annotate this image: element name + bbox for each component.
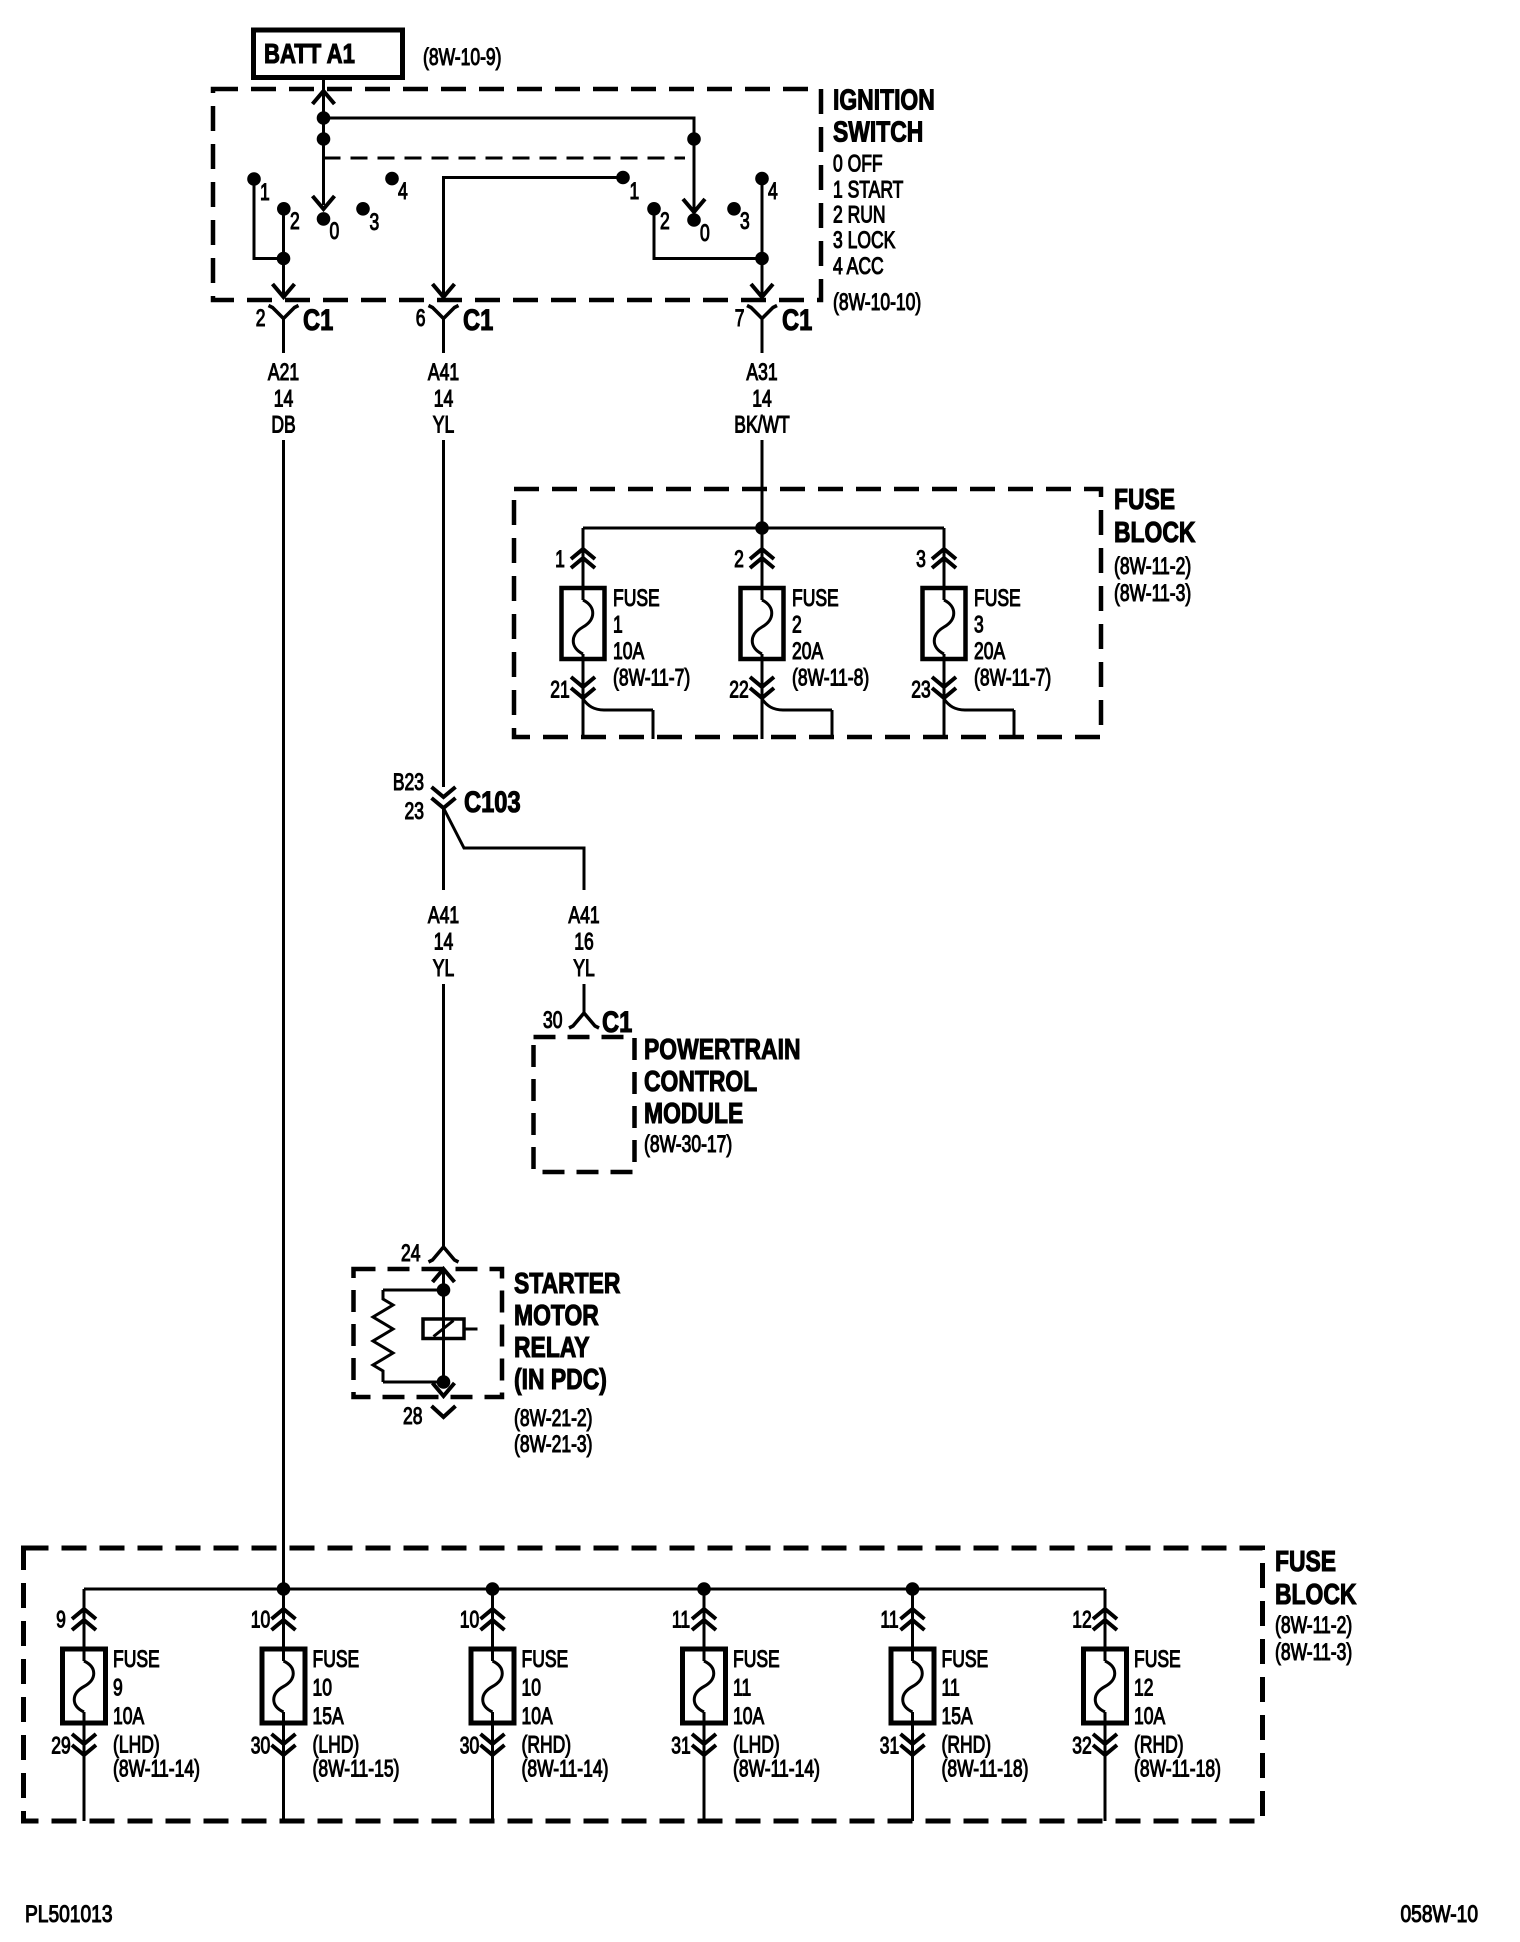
svg-text:21: 21 <box>550 677 569 703</box>
svg-text:(8W-21-3): (8W-21-3) <box>514 1431 592 1457</box>
arrow ignition output pin 2 <box>273 284 295 297</box>
svg-text:4: 4 <box>398 178 408 204</box>
svg-text:1: 1 <box>260 179 270 205</box>
pin 12 chevrons lower (RHD) <box>1093 1609 1117 1619</box>
wire A41 16 YL to PCM <box>583 984 586 1013</box>
svg-text:2: 2 <box>290 208 300 234</box>
connector pin 30 C1 of PCM <box>569 1013 599 1028</box>
svg-text:FUSE: FUSE <box>1114 482 1175 515</box>
contact 3 right <box>727 202 741 216</box>
svg-text:(8W-11-18): (8W-11-18) <box>1134 1756 1221 1782</box>
svg-text:YL: YL <box>433 412 454 438</box>
svg-text:14: 14 <box>434 929 454 955</box>
svg-text:(LHD): (LHD) <box>113 1732 160 1758</box>
contact 1 middle <box>616 171 630 185</box>
svg-text:7: 7 <box>735 305 745 331</box>
wire resistor bottom to junction <box>383 1381 444 1384</box>
svg-text:FUSE: FUSE <box>974 585 1021 611</box>
svg-text:31: 31 <box>671 1733 690 1759</box>
svg-text:28: 28 <box>403 1403 422 1429</box>
svg-text:0: 0 <box>700 220 710 246</box>
fuse 1 branch wire from bus <box>582 528 585 588</box>
wire battery feed to right wafer <box>324 118 695 139</box>
svg-text:IGNITION: IGNITION <box>833 83 935 116</box>
junction node on battery feed 2 <box>317 132 331 146</box>
arrow ignition output pin 7 <box>751 284 773 297</box>
junction node bus fuse 11 (RHD) <box>906 1582 920 1596</box>
svg-text:FUSE: FUSE <box>1134 1646 1181 1672</box>
svg-text:FUSE: FUSE <box>942 1646 989 1672</box>
svg-text:30: 30 <box>543 1007 562 1033</box>
wire to ignition output 7 <box>761 259 764 298</box>
junction node right wafer feed <box>687 132 701 146</box>
svg-text:4 ACC: 4 ACC <box>833 253 884 279</box>
wire right feed down to contact 0 right <box>693 139 696 209</box>
connector pin 28 of relay <box>432 1406 456 1417</box>
svg-text:3: 3 <box>974 612 984 638</box>
wire contact 2 right to output junction <box>654 209 762 259</box>
powertrain control module dashed box <box>534 1037 635 1172</box>
wire contact 2 to ignition output 2 <box>282 209 285 297</box>
svg-text:1: 1 <box>613 612 623 638</box>
fuse block dashed box lower <box>24 1548 1263 1821</box>
fuse F9 (LHD) body <box>63 1649 106 1723</box>
fuse 11 (LHD) branch wire <box>703 1589 706 1649</box>
wire contact 4 right down <box>761 179 764 259</box>
fuse F12 (RHD) body <box>1084 1649 1127 1723</box>
svg-text:YL: YL <box>433 955 454 981</box>
relay internal wire <box>442 1269 445 1382</box>
svg-text:23: 23 <box>405 798 424 824</box>
svg-text:1: 1 <box>555 546 565 572</box>
svg-text:(8W-11-3): (8W-11-3) <box>1275 1639 1352 1665</box>
svg-text:A21: A21 <box>268 359 299 385</box>
junction node bus fuse 10 (LHD) <box>277 1582 291 1596</box>
svg-text:3: 3 <box>370 209 380 235</box>
svg-text:(8W-10-10): (8W-10-10) <box>833 289 921 315</box>
svg-text:FUSE: FUSE <box>113 1646 160 1672</box>
svg-text:BLOCK: BLOCK <box>1114 515 1196 548</box>
svg-text:BLOCK: BLOCK <box>1275 1577 1357 1610</box>
fuse 10 (LHD) branch wire <box>282 1589 285 1649</box>
battery feed box BATT A1 <box>254 30 403 78</box>
connector pin 7 C1 <box>747 306 777 319</box>
svg-text:(LHD): (LHD) <box>313 1732 360 1758</box>
svg-text:C1: C1 <box>782 303 812 336</box>
pin 30 chevrons lower (RHD) <box>491 1723 494 1821</box>
svg-text:10A: 10A <box>613 638 644 664</box>
svg-text:MODULE: MODULE <box>644 1096 743 1129</box>
contact 0 right <box>687 213 701 227</box>
svg-text:6: 6 <box>416 305 426 331</box>
ignition switch dashed box <box>213 89 821 300</box>
pin 9 chevrons lower (LHD) <box>72 1609 96 1619</box>
fuse 3 output branch curve <box>944 699 1014 710</box>
pin 10 chevrons lower (RHD) <box>481 1609 505 1619</box>
svg-text:FUSE: FUSE <box>792 585 839 611</box>
pin 31 chevrons lower (LHD) <box>703 1723 706 1821</box>
connector pin 6 C1 <box>429 306 459 319</box>
svg-text:RELAY: RELAY <box>514 1330 590 1363</box>
wire A41 YL to starter motor relay <box>442 984 445 1247</box>
svg-text:32: 32 <box>1072 1733 1091 1759</box>
svg-text:14: 14 <box>434 386 454 412</box>
svg-text:C103: C103 <box>464 785 521 818</box>
relay coil <box>423 1319 464 1339</box>
svg-text:(8W-11-14): (8W-11-14) <box>733 1756 820 1782</box>
svg-text:20A: 20A <box>974 638 1005 664</box>
wire A21 DB from ignition to bottom fuse block <box>282 440 285 1589</box>
svg-text:(8W-11-2): (8W-11-2) <box>1275 1612 1352 1638</box>
fuse F10 (LHD) body <box>262 1649 305 1723</box>
svg-text:(8W-11-2): (8W-11-2) <box>1114 553 1191 579</box>
svg-text:10A: 10A <box>113 1703 144 1729</box>
pin 31 chevrons lower (RHD) <box>911 1723 914 1821</box>
svg-text:0: 0 <box>330 218 340 244</box>
fuse F11 (LHD) body <box>683 1649 726 1723</box>
svg-text:FUSE: FUSE <box>1275 1544 1336 1577</box>
svg-text:1: 1 <box>630 178 640 204</box>
svg-text:FUSE: FUSE <box>522 1646 569 1672</box>
svg-text:C1: C1 <box>463 303 493 336</box>
arrow ignition output pin 6 <box>433 284 455 297</box>
svg-text:2 RUN: 2 RUN <box>833 202 886 228</box>
fuse F11 (RHD) body <box>891 1649 934 1723</box>
svg-text:BATT A1: BATT A1 <box>264 39 355 70</box>
pin 32 chevrons lower (RHD) <box>1104 1723 1107 1821</box>
svg-text:STARTER: STARTER <box>514 1266 621 1299</box>
svg-text:(8W-30-17): (8W-30-17) <box>644 1131 732 1157</box>
svg-text:20A: 20A <box>792 638 823 664</box>
contact 1 left <box>247 172 261 186</box>
fuse F3 body <box>923 588 966 659</box>
svg-text:A41: A41 <box>428 902 459 928</box>
svg-text:C1: C1 <box>602 1005 632 1038</box>
svg-text:10: 10 <box>313 1675 332 1701</box>
wire contact 1 middle to ignition output 6 <box>444 178 624 298</box>
fuse F10 (RHD) body <box>471 1649 514 1723</box>
fuse 11 (RHD) branch wire <box>911 1589 914 1649</box>
svg-text:30: 30 <box>251 1733 270 1759</box>
fuse 1 output branch curve <box>583 699 653 710</box>
fuse block dashed box upper <box>514 489 1101 737</box>
svg-text:12: 12 <box>1134 1675 1153 1701</box>
contact 2 left <box>277 202 291 216</box>
svg-text:(8W-21-2): (8W-21-2) <box>514 1405 592 1431</box>
pin 29 chevrons lower (LHD) <box>83 1723 86 1821</box>
svg-text:2: 2 <box>792 612 802 638</box>
connector pin 24 of relay <box>429 1247 459 1262</box>
svg-text:(IN PDC): (IN PDC) <box>514 1362 607 1395</box>
fuse 2 output branch curve <box>762 699 832 710</box>
svg-text:10A: 10A <box>522 1703 553 1729</box>
svg-text:9: 9 <box>113 1675 123 1701</box>
pin 2 chevrons <box>750 549 774 559</box>
svg-text:10A: 10A <box>733 1703 764 1729</box>
dashed mechanical link between wafers <box>324 157 686 160</box>
svg-text:15A: 15A <box>942 1703 973 1729</box>
wire A31 BK/WT to fuse block <box>761 440 764 528</box>
svg-text:MOTOR: MOTOR <box>514 1298 599 1331</box>
svg-text:BK/WT: BK/WT <box>734 412 790 438</box>
contact 3 left <box>356 202 370 216</box>
relay coil junction top <box>437 1283 451 1297</box>
svg-text:CONTROL: CONTROL <box>644 1064 757 1097</box>
resistor in relay <box>373 1290 393 1382</box>
svg-text:15A: 15A <box>313 1703 344 1729</box>
svg-text:(8W-11-3): (8W-11-3) <box>1114 580 1191 606</box>
pin 22 chevrons <box>761 677 764 739</box>
svg-text:11: 11 <box>942 1675 960 1701</box>
svg-text:(8W-11-7): (8W-11-7) <box>613 665 690 691</box>
pin 10 chevrons lower (LHD) <box>272 1609 296 1619</box>
pin 11 chevrons lower (RHD) <box>901 1609 925 1619</box>
svg-text:29: 29 <box>51 1733 70 1759</box>
svg-text:2: 2 <box>256 305 266 331</box>
svg-text:11: 11 <box>672 1607 690 1633</box>
contact 4 right <box>755 172 769 186</box>
svg-text:4: 4 <box>768 178 778 204</box>
svg-text:11: 11 <box>733 1675 751 1701</box>
svg-text:B23: B23 <box>393 769 424 795</box>
svg-text:2: 2 <box>734 546 744 572</box>
arrow to contact 0 right <box>683 199 705 212</box>
fuse 2 branch wire from bus <box>761 528 764 588</box>
fuse F2 body <box>741 588 784 659</box>
svg-text:3: 3 <box>740 208 750 234</box>
svg-text:(RHD): (RHD) <box>942 1732 992 1758</box>
bus wire in lower fuse block <box>84 1588 1105 1591</box>
wire to resistor <box>383 1289 444 1292</box>
svg-text:16: 16 <box>574 929 593 955</box>
svg-text:12: 12 <box>1072 1607 1091 1633</box>
svg-text:(LHD): (LHD) <box>733 1732 780 1758</box>
svg-text:(8W-11-14): (8W-11-14) <box>113 1756 200 1782</box>
arrow out of relay pin 28 <box>433 1383 455 1396</box>
fuse 12 (RHD) branch wire <box>1104 1589 1107 1649</box>
svg-text:23: 23 <box>911 677 930 703</box>
connector pin 2 C1 <box>269 306 299 319</box>
svg-text:(8W-11-15): (8W-11-15) <box>313 1756 400 1782</box>
wire contact 1 to output junction <box>254 179 284 259</box>
junction node ignition output 2 <box>277 252 291 266</box>
svg-text:30: 30 <box>460 1733 479 1759</box>
svg-text:9: 9 <box>56 1607 66 1633</box>
svg-text:10: 10 <box>251 1607 270 1633</box>
svg-text:SWITCH: SWITCH <box>833 115 923 148</box>
junction node bus entry <box>755 521 769 535</box>
fuse F1 body <box>562 588 605 659</box>
fuse 9 (LHD) branch wire <box>83 1589 86 1649</box>
svg-text:PL501013: PL501013 <box>25 1900 113 1928</box>
wire from BATT A1 down to contact 0 (left wafer) <box>322 80 325 205</box>
svg-text:(8W-11-14): (8W-11-14) <box>522 1756 609 1782</box>
wire splice diagonal to PCM branch <box>444 808 585 890</box>
svg-text:0 OFF: 0 OFF <box>833 151 883 177</box>
pin 30 chevrons lower (LHD) <box>282 1723 285 1821</box>
svg-text:22: 22 <box>729 677 748 703</box>
svg-text:24: 24 <box>401 1240 421 1266</box>
svg-text:DB: DB <box>271 412 295 438</box>
pin 1 chevrons <box>571 549 595 559</box>
contact 0 left <box>317 212 331 226</box>
junction node bus fuse 10 (RHD) <box>486 1582 500 1596</box>
svg-text:FUSE: FUSE <box>613 585 660 611</box>
contact 4 left <box>385 172 399 186</box>
svg-text:14: 14 <box>752 386 772 412</box>
svg-text:(8W-11-7): (8W-11-7) <box>974 665 1051 691</box>
bus wire in upper fuse block <box>583 527 944 530</box>
svg-text:(RHD): (RHD) <box>1134 1732 1184 1758</box>
starter motor relay dashed box <box>354 1269 503 1397</box>
svg-text:3 LOCK: 3 LOCK <box>833 227 895 253</box>
svg-text:3: 3 <box>916 546 926 572</box>
relay coil stub <box>464 1328 478 1331</box>
pin 21 chevrons <box>582 677 585 739</box>
pin 3 chevrons <box>932 549 956 559</box>
pin 23 chevrons <box>943 677 946 739</box>
svg-text:10: 10 <box>460 1607 479 1633</box>
fuse 10 (RHD) branch wire <box>491 1589 494 1649</box>
svg-text:(8W-11-8): (8W-11-8) <box>792 665 869 691</box>
svg-text:14: 14 <box>274 386 294 412</box>
svg-text:11: 11 <box>880 1607 898 1633</box>
svg-text:A41: A41 <box>428 359 459 385</box>
svg-text:(8W-11-18): (8W-11-18) <box>942 1756 1029 1782</box>
junction node ignition output 7 <box>755 252 769 266</box>
arrow to contact 0 left <box>313 196 335 209</box>
arrow into BATT A1 <box>313 91 335 104</box>
svg-text:(RHD): (RHD) <box>522 1732 572 1758</box>
svg-text:FUSE: FUSE <box>313 1646 360 1672</box>
fuse 3 branch wire from bus <box>943 528 946 588</box>
wire A41 YL from ignition to connector C103 <box>442 440 445 787</box>
svg-text:058W-10: 058W-10 <box>1400 1900 1478 1928</box>
junction node bus fuse 11 (LHD) <box>697 1582 711 1596</box>
svg-text:10: 10 <box>522 1675 541 1701</box>
arrow into relay pin 24 <box>433 1269 455 1282</box>
svg-text:YL: YL <box>573 955 594 981</box>
svg-text:C1: C1 <box>303 303 333 336</box>
pin 11 chevrons lower (LHD) <box>692 1609 716 1619</box>
svg-text:10A: 10A <box>1134 1703 1165 1729</box>
wire below C103 splice left <box>442 808 445 890</box>
svg-text:FUSE: FUSE <box>733 1646 780 1672</box>
junction node on battery feed <box>317 111 331 125</box>
relay coil junction bottom <box>437 1375 451 1389</box>
svg-text:2: 2 <box>660 208 670 234</box>
svg-text:(8W-10-9): (8W-10-9) <box>423 44 501 70</box>
svg-text:A41: A41 <box>568 902 599 928</box>
contact 2 right <box>647 202 661 216</box>
svg-text:31: 31 <box>880 1733 899 1759</box>
svg-text:1 START: 1 START <box>833 177 904 203</box>
svg-text:POWERTRAIN: POWERTRAIN <box>644 1032 800 1065</box>
svg-text:A31: A31 <box>746 359 777 385</box>
